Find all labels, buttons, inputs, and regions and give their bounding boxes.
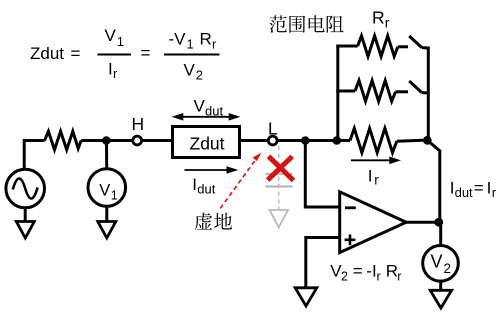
resistor Rs (source series) <box>45 131 82 149</box>
voltmeter V2 <box>423 245 459 281</box>
svg-text:-I: -I <box>366 261 376 280</box>
svg-text:r: r <box>374 173 379 188</box>
wire Zdut to L <box>240 139 269 142</box>
svg-text:=: = <box>353 261 363 280</box>
svg-text:1: 1 <box>117 34 124 49</box>
wire op-amp output <box>406 221 440 224</box>
svg-text:=: = <box>141 44 151 63</box>
wire resistor to H <box>81 139 133 142</box>
svg-text:V: V <box>431 251 443 271</box>
virtual ground ghost (grey) <box>266 146 293 227</box>
svg-text:r: r <box>212 37 217 52</box>
svg-text:Zdut: Zdut <box>30 44 64 63</box>
left bus wire <box>336 45 339 141</box>
right bus wire <box>427 47 430 141</box>
minus sign <box>345 206 356 209</box>
svg-text:-V: -V <box>169 30 187 49</box>
switch row1 (open) <box>409 36 428 48</box>
svg-text:r: r <box>377 269 381 283</box>
svg-text:V: V <box>194 97 206 116</box>
svg-text:2: 2 <box>444 261 452 276</box>
terminal H <box>133 136 142 145</box>
wire node to V1 <box>105 141 108 170</box>
svg-text:I: I <box>368 167 373 186</box>
svg-text:dut: dut <box>455 185 473 200</box>
wire jog to feedback vertical <box>427 140 440 222</box>
svg-text:I: I <box>487 178 492 197</box>
Idut arrow <box>185 167 237 173</box>
wire: source vertical + top horizontal to resistor <box>24 141 44 169</box>
op-amp U1 <box>340 192 407 253</box>
svg-text:r: r <box>397 269 401 283</box>
wire L to range resistor <box>277 139 350 142</box>
node: output <box>434 218 443 227</box>
svg-text:1: 1 <box>111 189 118 203</box>
svg-text:=: = <box>474 178 484 197</box>
red dashed arrow (callout to virtual ground) <box>220 153 261 209</box>
node dot V1 tap <box>102 136 111 145</box>
wire non-inverting input to ground <box>306 238 340 289</box>
svg-text:V: V <box>99 181 110 199</box>
ground (AC source) <box>16 222 34 239</box>
svg-text:r: r <box>492 185 497 200</box>
AC source <box>6 169 45 208</box>
switch row2 (open) <box>409 81 428 93</box>
wire V2 to ground <box>439 281 442 291</box>
svg-text:1: 1 <box>187 37 194 52</box>
ground (V2) <box>430 290 451 308</box>
label V2 = -Ir Rr <box>330 261 401 283</box>
svg-text:dut: dut <box>205 104 223 119</box>
label 范围电阻 (range resistor) <box>269 15 343 33</box>
svg-text:r: r <box>385 15 390 31</box>
svg-text:=: = <box>71 44 81 63</box>
resistor Rr row3 (selected range) <box>350 128 423 152</box>
wire inverting input <box>305 141 339 208</box>
terminal L <box>268 136 277 145</box>
Vdut arrow (double head) <box>173 114 239 120</box>
wire output to V2 <box>439 222 442 246</box>
red X (not grounded) <box>268 156 294 180</box>
svg-text:V: V <box>184 61 196 80</box>
svg-text:2: 2 <box>196 68 203 83</box>
node: opamp inverting branch <box>301 136 310 145</box>
ground (op-amp +) <box>295 288 317 306</box>
ground (V1) <box>98 222 116 239</box>
formula Zdut = V1/Ir = -V1 Rr / V2 <box>30 26 220 83</box>
svg-text:R: R <box>200 30 212 49</box>
label Rr <box>372 8 390 31</box>
resistor Rr row1 <box>336 36 408 57</box>
node: range resistor left <box>333 136 342 145</box>
svg-text:dut: dut <box>197 182 215 197</box>
wire H to Zdut <box>142 139 172 142</box>
svg-text:r: r <box>113 66 118 81</box>
svg-text:Zdut: Zdut <box>190 134 225 154</box>
wire AC to ground <box>24 208 27 222</box>
Ir arrow <box>351 157 399 163</box>
svg-text:R: R <box>386 261 398 280</box>
voltmeter V1 <box>88 169 126 207</box>
node: range resistor right <box>423 136 432 145</box>
DUT box Zdut <box>173 127 240 158</box>
resistor Rr row2 <box>336 81 408 102</box>
svg-text:H: H <box>132 114 145 134</box>
svg-text:2: 2 <box>341 269 348 283</box>
label 虚地 (virtual ground) <box>195 213 232 230</box>
plus sign <box>345 234 356 245</box>
svg-text:V: V <box>105 26 117 45</box>
wire V1 to ground <box>105 206 108 222</box>
svg-text:R: R <box>372 8 385 28</box>
label Idut=Ir <box>450 178 497 200</box>
